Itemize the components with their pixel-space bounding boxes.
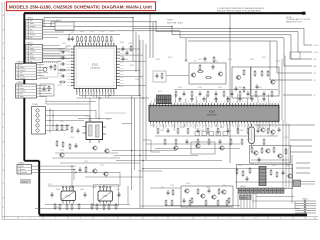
IC601 top pins with circles — [62, 186, 74, 191]
wire tuner pin2 run right — [60, 115, 90, 117]
IC501 jungle IC body gray — [149, 105, 279, 121]
transistor Q601 — [184, 189, 189, 193]
component box X101 dashed crystal sub-circuit — [40, 63, 58, 78]
capacitor C612 — [183, 198, 186, 204]
sub-circuit box around IC602 — [94, 185, 119, 206]
capacitor C520 — [246, 176, 249, 182]
svg-text:L391: L391 — [222, 185, 226, 187]
svg-text:L470: L470 — [180, 127, 184, 129]
small connector box top left x55 — [55, 22, 74, 30]
capacitor C207 — [256, 84, 259, 90]
wire IC101 right pin row to vertical bus — [119, 48, 140, 50]
delay line DL502 vertical gray segmented bar — [259, 167, 266, 186]
title box — [7, 2, 156, 11]
vertical bus x134.5 — [134, 98, 136, 170]
tuner ladder junction dots — [49, 110, 50, 111]
wire I/O stub y125 long — [255, 124, 315, 126]
IC601 audio amp DIP body — [61, 191, 76, 201]
IC602 bottom pins — [100, 201, 110, 204]
wire collector run y95.5 below IC101 — [80, 95, 139, 97]
wire rail above T301 y118.5 — [78, 118, 112, 120]
svg-text:D319: D319 — [110, 31, 114, 33]
wire CN601 row3 to junction — [32, 171, 77, 173]
connector CN103 row wires to the right — [37, 64, 45, 66]
connector CN502 bottom right pin circles — [295, 200, 316, 214]
resistor R208 — [254, 70, 256, 77]
small box V501 area — [191, 142, 215, 154]
wire mid vertical x128 lower — [127, 186, 129, 205]
capacitor C123 left of IC101 — [60, 63, 66, 66]
wire vertical drop x133 into IF area — [132, 28, 134, 62]
component tag row below IC501 — [195, 132, 200, 136]
frame bottom outer border line — [2, 218, 318, 220]
IC101 pin numbers inside body edges — [75, 47, 116, 88]
component box near CN104 — [40, 84, 54, 96]
vertical bus bundle bottom x238-256 — [237, 193, 239, 208]
IC501 pin label smudges above pins — [152, 101, 280, 103]
IC101 bottom pins — [77, 89, 114, 92]
resistor R605 left of box — [172, 189, 174, 196]
CN501 pad text marks — [239, 190, 283, 192]
wire IC101 bottom pins drop — [77, 91, 114, 98]
wire mid vertical x120 lower — [119, 172, 121, 186]
svg-text:R474: R474 — [90, 31, 94, 33]
svg-text:LA76810A: LA76810A — [90, 67, 100, 70]
wire short y171 left middle — [138, 170, 162, 172]
svg-text:C394: C394 — [272, 165, 276, 167]
svg-text:L500: L500 — [160, 187, 164, 189]
wire stubs resistor row to IC101 top pins — [78, 41, 112, 44]
wire CN601 row1 to junction — [32, 165, 77, 167]
capacitor C131 above IC101 — [68, 36, 71, 42]
svg-text:CN103: CN103 — [17, 62, 24, 64]
wire bus3 drop to I/O row x291 — [290, 35, 292, 59]
capacitor C331 — [79, 167, 82, 173]
IC101 left pins — [71, 49, 74, 86]
svg-text:ABL: ABL — [314, 65, 317, 68]
IC101 top pins — [77, 43, 114, 46]
transistor Q602 — [200, 194, 205, 198]
svg-text:L160: L160 — [250, 163, 254, 165]
wire vertical drop x136 — [135, 32, 137, 72]
wire CN102 rows to IC101 left pins — [66, 45, 71, 47]
svg-text:L149: L149 — [70, 32, 74, 34]
resistor R512 — [273, 147, 275, 154]
svg-text:D686: D686 — [56, 189, 60, 191]
transistor Q510 — [287, 174, 292, 178]
wire rail above IC501 parts row — [174, 89, 278, 91]
wire tuner output rails to T301 — [46, 101, 96, 103]
wire rail above resistor row — [68, 33, 120, 35]
junction dots below IC101 — [99, 97, 100, 98]
svg-text:L531: L531 — [100, 165, 104, 167]
svg-text:R188: R188 — [120, 42, 124, 44]
transistor Q603 — [211, 195, 216, 199]
resistors bottom row inside bottom middle box — [189, 200, 191, 207]
resistor R209 — [261, 70, 263, 77]
wire right lower rail y182 — [235, 181, 294, 183]
capacitor C515 right of DL501 — [278, 127, 281, 133]
wire tuner pin1 run right — [60, 110, 96, 112]
resistor R524 — [276, 171, 278, 178]
svg-text:AUDIO: AUDIO — [22, 180, 29, 183]
svg-text:D219: D219 — [238, 165, 242, 167]
capacitor C115 — [43, 86, 46, 92]
IC101 right pins — [117, 49, 120, 86]
wire faint y113 left of IC501 — [105, 112, 126, 114]
wire horizontal y196 right — [256, 196, 294, 198]
svg-text:D220: D220 — [214, 61, 218, 63]
resistor cluster IF left lower — [56, 140, 58, 147]
thick bus: top right end cap — [302, 12, 306, 15]
resistor R604 — [228, 197, 230, 204]
wire I/O stub y140 — [290, 139, 312, 141]
svg-text:Q255: Q255 — [84, 161, 88, 163]
wire bus3 step down at x172 — [171, 26, 173, 34]
svg-text:D285: D285 — [250, 59, 254, 61]
svg-text:CN110: CN110 — [56, 20, 61, 22]
wire drops into CN502 area — [294, 201, 296, 209]
DL501 top and bottom pins — [251, 124, 253, 127]
T301 bottom pin stubs — [89, 140, 91, 144]
sub-circuit box right lower — [237, 165, 293, 189]
capacitor C215 in left cluster — [156, 73, 159, 79]
resistors below IC602 — [91, 203, 93, 210]
svg-text:R690: R690 — [130, 65, 134, 67]
resistor cluster IF left — [56, 124, 58, 131]
svg-text:L451: L451 — [60, 121, 64, 123]
svg-text:D226: D226 — [58, 85, 62, 87]
wire tuner riser x46 — [45, 98, 47, 104]
wire bus3 right run y34.8 — [172, 34, 291, 36]
wire bus1 right run y28.4 — [133, 27, 304, 29]
resistor R331 — [85, 166, 87, 173]
wire audio drop x74 — [73, 169, 75, 180]
wire y188 run — [150, 187, 181, 189]
transistor Q501 — [173, 146, 178, 150]
wire vertical drop x186 — [185, 38, 187, 60]
capacitor C141 right of IC101 — [122, 46, 125, 52]
svg-text:R346: R346 — [58, 49, 62, 51]
sub-circuit box bottom middle — [181, 186, 233, 207]
resistor R207 in tall box — [243, 86, 245, 93]
resistors left of bottom middle box lower — [165, 200, 167, 207]
connector CN101 row wires to the right — [43, 20, 59, 22]
wire bus2 right run y31.6 — [156, 31, 298, 33]
svg-text:R179: R179 — [48, 184, 52, 186]
wire T301 top pins up to IF input — [89, 98, 91, 122]
vertical bus x140 — [139, 40, 141, 209]
tuner ladder vertical x53 — [52, 110, 54, 130]
svg-text:M52340SP: M52340SP — [207, 114, 218, 116]
resistors below IC601 — [54, 203, 56, 210]
wire long horizontal y206 lower middle — [140, 205, 232, 207]
resistor R602 — [197, 188, 199, 195]
parts row above IC501 second rank — [179, 97, 182, 103]
svg-text:Q354: Q354 — [200, 130, 204, 132]
IC602 internal diagonal — [99, 192, 111, 201]
sub-circuit box tall middle — [232, 67, 251, 98]
wire bus2 corner entry vertical x51 — [50, 22, 52, 27]
svg-text:L268: L268 — [60, 150, 64, 152]
thick bus: step horizontal at y161 — [24, 160, 39, 162]
jack J501 leads — [301, 181, 316, 183]
vertical bus x143 — [142, 40, 144, 209]
thick bus: left vertical heavy line — [23, 13, 25, 161]
capacitor C601 left of IC601 — [51, 192, 54, 198]
thick bus: bottom horizontal heavy line — [39, 214, 307, 217]
wire I/O stub y146 — [290, 145, 312, 147]
svg-text:TAKEN WITH VOM.: TAKEN WITH VOM. — [286, 21, 303, 24]
T301 side pin stubs — [83, 126, 87, 128]
wire bus2 step down at x156 — [155, 22, 157, 32]
svg-text:AFT: AFT — [314, 58, 317, 61]
connector CN101 box with pin rows — [26, 20, 43, 40]
svg-text:R695: R695 — [262, 57, 266, 59]
svg-text:IC101: IC101 — [92, 65, 99, 67]
svg-text:Q448: Q448 — [80, 189, 84, 191]
transistor Q505 — [253, 151, 258, 155]
wire tuner pin5 run down-right — [60, 130, 66, 132]
capacitor C521 — [282, 170, 285, 176]
transistor Q204 in tall box — [236, 75, 241, 79]
frame bottom tick marks and column numbers — [18, 216, 293, 219]
capacitor C142 right of IC101 — [126, 50, 129, 56]
svg-text:IC601: IC601 — [66, 196, 71, 198]
resistor R511 — [261, 147, 263, 154]
wire audio bottom rail y208.5 — [35, 208, 300, 210]
resistor R206 in tall box — [243, 69, 245, 76]
svg-text:CN502: CN502 — [302, 199, 308, 201]
transistor Q304 lower — [92, 169, 97, 173]
IC601 bottom pins — [63, 201, 73, 204]
svg-text:L455: L455 — [246, 139, 250, 141]
resistor R520 — [236, 168, 238, 175]
wire I/O stub y163 arrow — [296, 162, 310, 164]
wire bus1 drop to I/O row x304 — [303, 28, 305, 45]
resistor R603 — [218, 188, 220, 195]
svg-text:D567: D567 — [116, 189, 120, 191]
wire IF rail y153 — [55, 152, 118, 154]
svg-text:C696: C696 — [124, 59, 128, 61]
IC501 bottom pins — [151, 121, 279, 123]
wire bus5 right run y41 — [188, 40, 277, 42]
svg-text:Q272: Q272 — [284, 137, 288, 139]
wire IF rail y158 — [52, 157, 120, 159]
IC501 pin number marks inside top edge — [151, 106, 279, 108]
svg-text:Q691: Q691 — [206, 187, 210, 189]
transistor Q303 — [59, 153, 64, 157]
connector CN104 box with pin rows — [16, 84, 37, 98]
sub-circuit box right of tall box — [251, 67, 280, 96]
resistor R513 — [285, 148, 287, 155]
wire into video box y75 — [166, 75, 189, 77]
capacitor C301 — [77, 128, 80, 134]
transistor Q507 — [277, 154, 282, 158]
transistor Q502 — [195, 144, 200, 148]
resistor R601 — [191, 197, 193, 204]
wire bus4 step down at x180 — [179, 31, 181, 38]
svg-text:D174: D174 — [85, 116, 89, 118]
svg-text:R688: R688 — [240, 130, 244, 132]
svg-text:R195: R195 — [55, 207, 59, 209]
svg-text:C396: C396 — [184, 61, 188, 63]
parts row below IC501 upper — [157, 128, 159, 135]
IF transformer T301 secondary winding — [96, 125, 100, 137]
capacitor C202 above video box — [204, 57, 207, 63]
svg-text:R326: R326 — [156, 59, 160, 61]
transistor Q509 right of DL501 — [270, 130, 275, 134]
svg-text:Q254: Q254 — [62, 43, 66, 45]
resistor R141 right of IC101 — [130, 45, 132, 52]
svg-text:R664: R664 — [58, 61, 62, 63]
svg-text:D292: D292 — [276, 61, 280, 63]
capacitor C603 right of IC602 — [118, 192, 121, 198]
junction dots on long buses — [132, 17, 133, 18]
svg-text:V-OUT: V-OUT — [314, 52, 319, 54]
resistor R110 in crystal box — [54, 64, 56, 71]
wire mid horizontal y155 — [114, 155, 198, 157]
transistor Q206 — [270, 80, 275, 84]
wire vertical drop x153 — [152, 22, 154, 58]
wire crystal box to QFP — [58, 69, 74, 71]
wire audio mid rail y204 — [45, 204, 130, 206]
resistor array above IC101 — [77, 36, 79, 43]
wire tuner pin3 run right — [60, 120, 84, 122]
wire bus2 horizontal y21.8 — [51, 21, 156, 23]
transistor Q201 — [191, 73, 196, 77]
sub-circuit box video amp — [189, 63, 226, 84]
delay line DL501 tall rounded component — [249, 127, 255, 144]
capacitor C613 left of box — [167, 190, 170, 196]
wire vertical x282 upper right — [281, 59, 283, 120]
audio label gray box under CN601 — [21, 180, 31, 184]
wire I/O stub y168 arrow — [296, 167, 310, 169]
svg-text:R670: R670 — [168, 57, 172, 59]
IC501 top pins — [151, 103, 279, 105]
jack J501 gray box — [294, 180, 301, 187]
connector CN501 gray pad bar — [238, 188, 284, 193]
svg-text:IC602: IC602 — [103, 196, 108, 198]
capacitor C510 — [258, 157, 261, 163]
gray label box below CN501 — [240, 195, 252, 199]
wire vertical drop x230 long — [229, 13, 231, 163]
IC101 right pin tick ends — [118, 48, 120, 86]
scattered component reference labels — [48, 31, 290, 209]
svg-text:Q199: Q199 — [158, 91, 162, 93]
capacitor C201 — [212, 65, 215, 71]
frame left tick marks and row letters — [2, 30, 5, 198]
capacitor C206 in tall box — [235, 86, 238, 92]
transistor Q508 right of DL501 — [260, 128, 265, 132]
svg-text:CN102: CN102 — [27, 43, 34, 45]
parts row below IC501 lower — [164, 139, 166, 146]
svg-text:C353: C353 — [286, 165, 290, 167]
IC101 left pin tick ends — [70, 48, 72, 86]
resistor R201 horizontal — [197, 71, 204, 73]
svg-text:L528: L528 — [128, 43, 132, 45]
DL501 inner line — [251, 129, 253, 141]
IC101 QFP body — [74, 46, 117, 89]
transistor Q202 — [218, 72, 223, 76]
svg-text:R162: R162 — [186, 183, 190, 185]
wire bus5 drop x277 — [276, 41, 278, 73]
capacitor C143 right of IC101 — [122, 56, 125, 62]
wire mid horizontal y150 — [112, 150, 176, 152]
frame left inner border line — [4, 2, 6, 219]
svg-text:D161: D161 — [198, 87, 202, 89]
IC101 pin name smudge labels around package — [67, 40, 124, 94]
IC101 bottom pin tick ends — [76, 90, 114, 92]
capacitor C132 above IC101 — [71, 36, 74, 42]
wire bus4 drop to I/O row x284 — [283, 38, 285, 66]
capacitor C302 — [75, 143, 78, 149]
IC101 QFP inner pin-number ring — [77, 49, 115, 87]
svg-text:CN501: CN501 — [240, 186, 246, 188]
tuner TU101 body box — [32, 107, 46, 135]
resistor R213 — [267, 70, 269, 77]
wire CN601 row2 to junction — [32, 168, 77, 170]
wire audio rail y186 above DIPs — [48, 185, 120, 187]
vertical bus bundle right x283-292 — [282, 120, 284, 188]
crystal X101 circle — [43, 68, 47, 72]
svg-text:D159: D159 — [100, 31, 104, 33]
IC602 audio amp DIP body — [98, 191, 113, 201]
thick bus: lower left vertical heavy line — [38, 161, 40, 215]
resistor R521 — [242, 170, 244, 177]
wire y123 left of IC501 — [122, 123, 132, 125]
svg-text:L699: L699 — [160, 130, 164, 132]
transistor Q302 below T301 — [104, 149, 109, 153]
resistor R204 above video box — [213, 56, 215, 63]
IC501 pin label smudges below pins — [151, 124, 280, 128]
svg-text:L160: L160 — [58, 73, 62, 75]
wire run y163 mid — [60, 162, 140, 164]
transistor Q506 — [265, 149, 270, 153]
wire bus1 horizontal y17.6 — [44, 17, 133, 19]
svg-text:D164: D164 — [178, 87, 182, 89]
capacitor C124 left of IC101 — [60, 75, 66, 78]
small parts cluster left of video box — [153, 71, 166, 82]
resistor R202 horizontal — [205, 77, 212, 79]
connector CN601 box — [17, 165, 32, 175]
wire bus1 corner entry vertical x44 — [43, 18, 45, 27]
wire rail y136 below IC501 — [155, 135, 278, 137]
wire IC501 bottom pin drops cluster — [153, 124, 270, 131]
junction dot x186 y60 — [185, 59, 186, 60]
svg-text:L182: L182 — [170, 185, 174, 187]
wire vertical x285 upper right — [284, 56, 286, 123]
svg-text:PWB 1: PWB 1 — [167, 20, 174, 22]
svg-text:R572: R572 — [270, 135, 274, 137]
wire vertical drop x139 — [138, 35, 140, 96]
svg-text:R648: R648 — [80, 31, 84, 33]
svg-text:L644: L644 — [238, 87, 242, 89]
svg-text:SIDE PWB : BULK: SIDE PWB : BULK — [167, 22, 183, 24]
svg-text:CN601: CN601 — [18, 163, 25, 165]
capacitor C121 left of IC101 — [60, 51, 66, 54]
resistor R121 left of IC101 — [59, 69, 66, 71]
wire long horizontal y168.5 middle — [143, 168, 293, 170]
svg-text:CN104: CN104 — [17, 82, 24, 84]
IC101 top pin tick ends — [76, 42, 114, 44]
ceramic filter hatched block CF501 — [157, 95, 172, 104]
svg-text:B+: B+ — [314, 95, 316, 97]
resistor R122 left of IC101 — [59, 81, 66, 83]
transistor Q301 below T301 — [92, 146, 97, 150]
svg-text:L247: L247 — [198, 59, 202, 61]
wire horizontal y201 right — [252, 200, 295, 202]
